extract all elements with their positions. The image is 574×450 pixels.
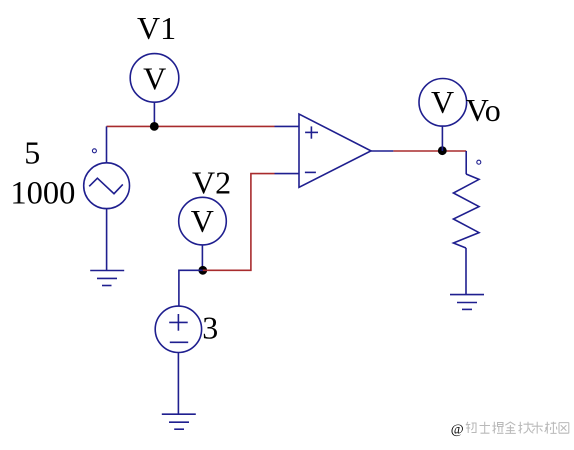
junction A [150,122,159,131]
ground G3 [450,295,484,310]
wire V2 pin [201,245,203,270]
resistor R1 [453,174,479,248]
wire junction B to battery (blue) [179,270,203,306]
svg-text:V: V [143,61,166,97]
ground G1 [90,271,124,286]
wire noninverting input stub [275,125,300,127]
wire top net (red) [107,125,275,127]
wire inverting input stub [275,173,300,175]
wire source bottom pin [106,209,108,271]
svg-text:1000: 1000 [10,176,75,212]
svg-text:3: 3 [202,309,218,345]
voltmeter V1 [130,54,179,103]
junction B [198,266,207,275]
op-amp U1 [299,114,371,187]
dc source V4 [155,306,201,352]
wire corner to resistor [465,151,467,174]
wire output stub [371,150,393,152]
voltmeter V2 [179,197,227,245]
wire output net (red) [393,150,466,152]
svg-text:V2: V2 [192,164,231,200]
wire inverting net (red) [203,174,275,271]
voltmeter Vo [419,79,467,127]
wire Vo meter pin [441,126,443,151]
svg-text:V: V [431,84,454,120]
ac source V3 [84,163,130,209]
wire battery bottom pin [177,353,179,415]
terminal marker source [92,149,96,153]
svg-text:V1: V1 [137,10,176,46]
junction C [438,146,447,155]
wire V1 pin [153,102,155,126]
wire resistor bottom lead [465,248,467,295]
svg-text:Vo: Vo [466,92,501,128]
svg-text:@: @ [451,422,464,437]
svg-text:5: 5 [24,135,40,171]
ground G2 [162,414,196,429]
watermark [451,422,569,438]
wire source top pin [106,126,108,163]
svg-text:V: V [191,203,214,239]
terminal marker resistor [477,160,481,164]
